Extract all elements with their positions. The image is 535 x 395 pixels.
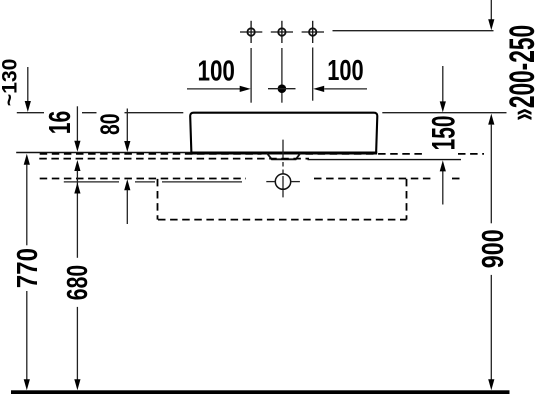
wire tap centerline left xyxy=(250,48,252,103)
tap hole circle middle xyxy=(271,21,293,43)
drain centerline xyxy=(282,140,284,198)
wire under-basin solid line xyxy=(64,181,242,183)
wire siphon cover dashed top line xyxy=(40,178,461,180)
wire tap centerline middle xyxy=(281,48,283,103)
dimension line 900 xyxy=(488,114,494,391)
dimension stub 150 lower xyxy=(440,160,446,204)
svg-text:100: 100 xyxy=(197,56,235,88)
siphon cover dashed rectangle bottom edge xyxy=(158,219,407,221)
dimension stub 80 lower xyxy=(124,179,130,224)
dimension arrow 100 right xyxy=(313,86,367,92)
wire countertop hidden dashed line 1 xyxy=(40,153,484,155)
floor line xyxy=(11,390,510,394)
drain circle xyxy=(275,174,290,189)
dimension stub 150 upper xyxy=(440,66,446,112)
dimension line 770 xyxy=(24,154,30,390)
wire countertop hidden dashed line 2 xyxy=(39,158,309,160)
basin bottom edge xyxy=(190,152,377,154)
tap hole circle right xyxy=(302,21,324,43)
dimension arrow 100 left xyxy=(187,86,251,92)
wire wall reference line top xyxy=(333,30,494,32)
siphon cover dashed rectangle right edge xyxy=(406,179,408,220)
siphon cover dashed rectangle left edge xyxy=(157,179,159,220)
dimension line 16 upper xyxy=(74,106,80,152)
dimension line 680 xyxy=(74,160,80,390)
washbasin body xyxy=(190,113,377,154)
wire tap centerline right xyxy=(312,48,314,101)
svg-text:80: 80 xyxy=(95,114,125,136)
svg-text:»200-250: »200-250 xyxy=(503,25,535,121)
svg-text:~130: ~130 xyxy=(0,59,22,107)
drain boss trapezoid xyxy=(267,153,300,159)
svg-text:770: 770 xyxy=(12,248,44,288)
tap hole circle left xyxy=(240,21,262,43)
svg-text:16: 16 xyxy=(42,111,77,135)
label background 150 xyxy=(426,114,458,153)
svg-text:680: 680 xyxy=(61,265,93,300)
node mounting dot xyxy=(268,84,296,93)
svg-text:150: 150 xyxy=(424,115,461,150)
dimension stub ~130 xyxy=(25,67,31,112)
dimension stub 200-250 xyxy=(488,0,494,30)
wire countertop top solid line xyxy=(16,152,190,154)
drain circle crosshair ticks xyxy=(266,181,300,183)
wire console front edge solid line xyxy=(308,159,462,161)
svg-text:100: 100 xyxy=(327,55,363,87)
svg-text:900: 900 xyxy=(477,229,510,268)
dimension line 80 upper xyxy=(124,109,130,153)
wire rim reference line xyxy=(17,112,507,114)
